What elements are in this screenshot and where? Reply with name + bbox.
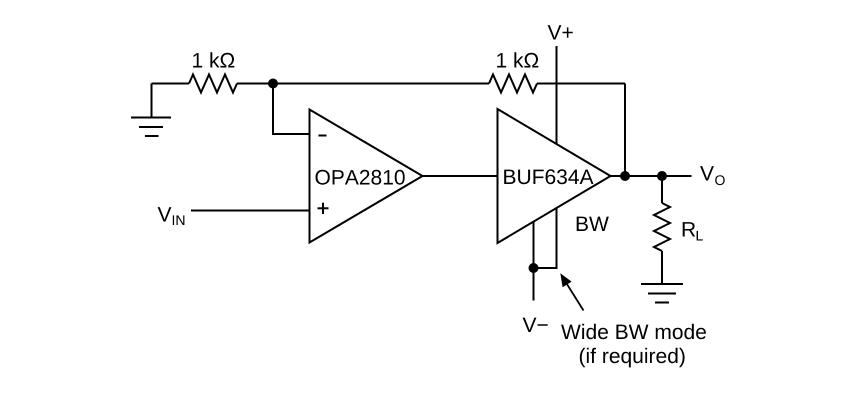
label U1 OPA2810 <box>316 170 405 185</box>
resistor R2 <box>489 75 537 93</box>
label BW pin <box>577 217 609 231</box>
resistor RL <box>654 203 670 251</box>
op-amp U1 OPA2810 <box>310 110 423 243</box>
label Wide BW mode <box>561 324 706 339</box>
wire output <box>611 175 692 177</box>
wire V- pin <box>533 222 535 301</box>
label V- supply <box>523 318 548 332</box>
label VO <box>700 166 725 185</box>
ground <box>131 84 171 137</box>
label RL <box>683 222 703 240</box>
label R1 value 1 kOhm <box>193 52 234 67</box>
wire VIN input <box>191 210 310 212</box>
ground <box>641 284 683 303</box>
pin label minus <box>319 135 327 137</box>
wire <box>273 84 310 135</box>
resistor R1 <box>189 75 237 93</box>
label U2 BUF634A <box>504 169 593 184</box>
node A junction dot <box>268 79 278 89</box>
node C junction dot <box>657 171 667 181</box>
buffer U2 BUF634A <box>498 109 611 243</box>
wire <box>537 83 625 85</box>
wire <box>237 83 489 85</box>
wire U1 output <box>423 175 498 177</box>
label V+ supply <box>548 25 573 39</box>
label R2 value 1 kOhm <box>497 52 538 67</box>
wire BW pin <box>534 208 557 268</box>
label VIN <box>158 207 185 225</box>
label if required <box>580 348 685 368</box>
node D junction dot <box>529 263 539 273</box>
wire to RL <box>661 176 663 203</box>
wire RL to ground <box>661 251 663 284</box>
wire <box>152 83 190 85</box>
wire feedback <box>624 84 626 177</box>
node B junction dot <box>620 171 630 181</box>
pin label plus <box>318 203 329 214</box>
arrow annotation <box>560 273 583 310</box>
wire V+ supply <box>556 46 558 144</box>
